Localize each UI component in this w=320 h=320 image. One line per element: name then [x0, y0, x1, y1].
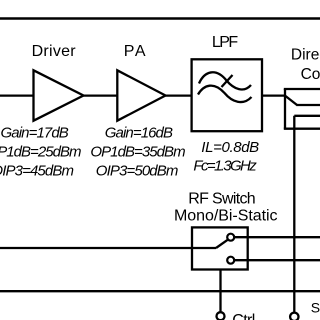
- directional coupler top edge: [284, 88, 320, 90]
- switch throw line bottom: [234, 259, 320, 261]
- svg-text:OIP3=50dBm: OIP3=50dBm: [96, 163, 179, 180]
- wire into switch pole: [0, 247, 216, 249]
- svg-text:PA: PA: [124, 43, 146, 60]
- LPF symbol cross slash: [222, 75, 233, 87]
- wire input to driver: [0, 94, 34, 96]
- amplifier PA: [117, 70, 165, 120]
- svg-text:Ctrl: Ctrl: [232, 312, 255, 320]
- wire LPF to coupler: [262, 94, 285, 96]
- amplifier Driver: [34, 70, 84, 120]
- coupled line top edge: [294, 115, 320, 117]
- svg-text:Fc=1.3GHz: Fc=1.3GHz: [193, 157, 257, 174]
- top border line: [0, 17, 320, 20]
- wire driver to PA: [84, 94, 118, 96]
- coupled port wire down to S terminal: [293, 116, 295, 313]
- RF switch box: [192, 227, 248, 269]
- svg-text:Coupler: Coupler: [301, 66, 320, 83]
- filter LPF box: [192, 59, 262, 131]
- svg-text:IL=0.8dB: IL=0.8dB: [201, 139, 259, 156]
- svg-text:Mono/Bi-Static: Mono/Bi-Static: [174, 208, 278, 225]
- svg-text:Driver: Driver: [32, 43, 77, 60]
- bottom rail line: [0, 290, 320, 292]
- svg-text:Gain=16dB: Gain=16dB: [105, 125, 173, 142]
- directional coupler left edge: [284, 89, 286, 129]
- switch throw contact bottom: [227, 257, 234, 264]
- wire PA to LPF: [166, 94, 192, 96]
- terminal Ctrl: [217, 312, 225, 320]
- switch pole arm diagonal: [216, 240, 228, 248]
- svg-text:Gain=17dB: Gain=17dB: [1, 125, 69, 142]
- svg-text:OP1dB=35dBm: OP1dB=35dBm: [90, 144, 185, 161]
- directional coupler input notch diagonal: [285, 96, 297, 105]
- terminal S: [290, 313, 298, 320]
- svg-text:RF Switch: RF Switch: [188, 191, 256, 208]
- svg-text:OIP3=45dBm: OIP3=45dBm: [0, 163, 74, 180]
- directional coupler bottom edge: [284, 128, 320, 130]
- svg-text:OP1dB=25dBm: OP1dB=25dBm: [0, 144, 82, 161]
- switch throw contact top: [227, 234, 234, 241]
- svg-text:Directional: Directional: [291, 47, 320, 64]
- svg-text:Sum: Sum: [311, 299, 320, 315]
- switch throw line top: [234, 236, 320, 238]
- ctrl wire down: [219, 270, 221, 313]
- LPF symbol top wave: [199, 72, 251, 89]
- svg-text:LPF: LPF: [212, 34, 238, 51]
- LPF symbol bottom wave: [198, 86, 252, 102]
- directional coupler notch line: [296, 104, 320, 106]
